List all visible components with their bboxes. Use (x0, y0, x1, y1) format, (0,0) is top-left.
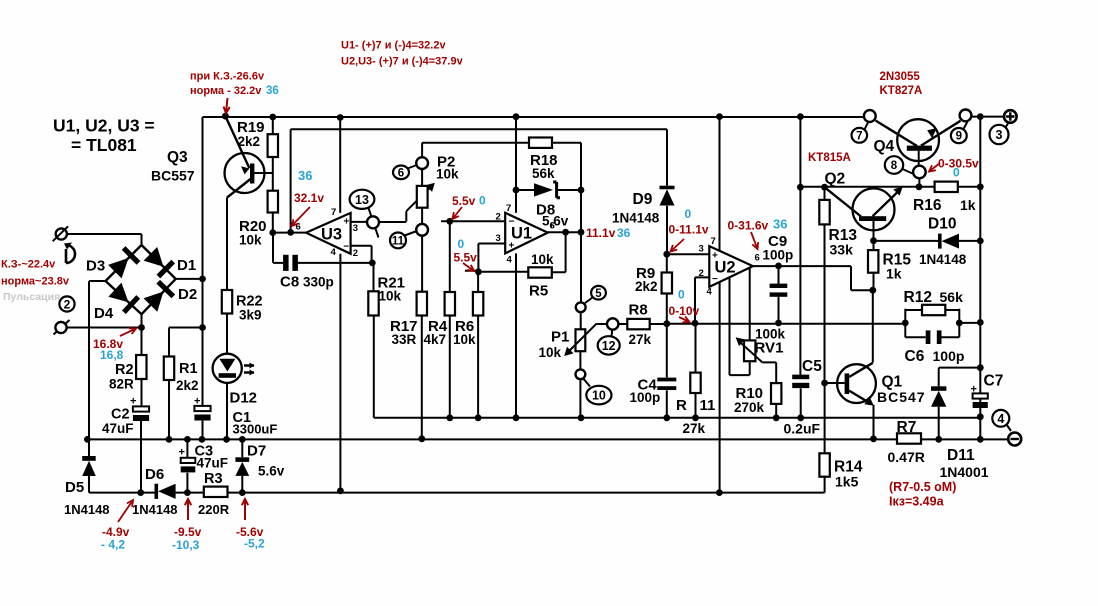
node R10 sense (773, 414, 780, 421)
node C4 sense (663, 414, 670, 421)
svg-text:0-11.1v: 0-11.1v (669, 223, 709, 237)
node U3 pin7 rail (337, 114, 344, 121)
node Q1 emitter bus (870, 435, 877, 442)
resistor R22 (222, 290, 232, 314)
svg-text:KT827A: KT827A (880, 85, 923, 97)
node rail right (977, 113, 984, 120)
svg-text:7: 7 (506, 203, 511, 214)
node right rail R12 (977, 319, 984, 326)
svg-text:BC557: BC557 (151, 168, 195, 184)
svg-text:5.6v: 5.6v (258, 464, 285, 479)
terminal input 2 label (59, 296, 74, 311)
svg-text:C6: C6 (905, 348, 925, 365)
svg-text:2k2: 2k2 (635, 279, 658, 294)
node R20 U3 output (269, 229, 276, 236)
svg-text:R7: R7 (897, 419, 917, 436)
svg-text:Q2: Q2 (825, 171, 846, 188)
resistor R21 10k (373, 263, 375, 418)
node D9 U2 pin3 (663, 251, 670, 258)
svg-text:К.З-~22.4v: К.З-~22.4v (1, 259, 56, 271)
svg-text:7: 7 (856, 130, 862, 142)
resistor R5 10k feedback (478, 232, 565, 272)
resistor R6 10k (477, 272, 479, 292)
diode D3 (108, 258, 128, 278)
svg-text:(R7-0.5 oM): (R7-0.5 oM) (889, 480, 956, 494)
node U1 output D8 R18 (578, 229, 585, 236)
svg-text:D3: D3 (86, 258, 105, 275)
svg-text:3k9: 3k9 (239, 308, 262, 323)
svg-text:3: 3 (996, 128, 1003, 142)
svg-text:1N4148: 1N4148 (132, 502, 178, 517)
potentiometer P2 10k (406, 186, 431, 211)
svg-text:D6: D6 (145, 466, 164, 483)
resistor R1 (164, 357, 174, 381)
op-amp U2 TL081 (709, 246, 753, 287)
svg-text:82R: 82R (109, 377, 134, 392)
svg-text:10k: 10k (379, 289, 402, 304)
wire 0.2uF sense line (374, 417, 981, 419)
resistor R7 0.47R (897, 433, 921, 443)
svg-text:4: 4 (507, 255, 513, 266)
node Q2 base R15 D10 (870, 237, 877, 244)
resistor R3 220R (204, 487, 228, 497)
svg-text:4: 4 (707, 287, 713, 298)
node D12 bus (223, 436, 230, 443)
svg-text:16,8: 16,8 (100, 348, 124, 362)
transistor Q1 BC547 (872, 290, 874, 362)
wire U1 pin7 D8 vertical (515, 117, 517, 213)
svg-text:7: 7 (331, 207, 336, 218)
svg-text:норма - 32.2v: норма - 32.2v (190, 85, 262, 97)
node C3 top bus (184, 436, 191, 443)
node C2 bias junction (137, 489, 144, 496)
svg-text:1k5: 1k5 (835, 474, 859, 490)
wire U2 pin3 to D9 R9 (667, 253, 710, 255)
svg-text:11: 11 (392, 236, 405, 248)
resistor R4 4k7 (449, 221, 451, 292)
wire U2 output to R15 node (753, 266, 873, 290)
svg-text:3300uF: 3300uF (233, 422, 278, 437)
resistor R19 2k2 (272, 117, 274, 191)
svg-text:при К.З.-26.6v: при К.З.-26.6v (190, 71, 265, 83)
node C1 bus (199, 436, 206, 443)
node U3 pin2 C8 R21 (369, 260, 376, 267)
node U3 pin4 bias rail (337, 487, 344, 494)
wire U2 pin7 from rail (719, 117, 721, 251)
svg-text:13: 13 (355, 193, 369, 207)
svg-text:U3: U3 (321, 226, 342, 244)
svg-text:+: + (509, 241, 515, 252)
transistor Q4 KT827A (876, 121, 918, 147)
resistor R16 1k (935, 182, 958, 192)
resistor R8 27k (618, 323, 667, 325)
svg-text:12: 12 (602, 339, 616, 353)
node D8 right (578, 187, 585, 194)
svg-text:U1, U2, U3 =: U1, U2, U3 = (53, 116, 155, 136)
svg-text:33k: 33k (830, 242, 854, 258)
svg-text:5,6v: 5,6v (542, 214, 569, 229)
svg-text:330p: 330p (303, 275, 334, 290)
svg-text:-10,3: -10,3 (172, 538, 200, 552)
capacitor C8 330p (273, 233, 372, 263)
svg-text:R3: R3 (204, 471, 223, 487)
node R13 top (821, 184, 828, 191)
wire terminal 1 to bridge top (67, 234, 142, 245)
wire D11 link (939, 368, 980, 387)
wiper terminal 12 (607, 318, 618, 329)
svg-text:10k: 10k (531, 252, 554, 267)
svg-text:220R: 220R (198, 502, 230, 517)
wire terminal 10 to sense line (579, 379, 581, 418)
svg-text:D12: D12 (230, 390, 258, 407)
terminal 3 plus output (1004, 110, 1017, 123)
svg-text:Q1: Q1 (882, 374, 903, 391)
diode D4 (108, 283, 128, 303)
wire Q4 base line (800, 186, 980, 188)
node R6 sense line (475, 414, 482, 421)
bridge rectifier frame (106, 245, 176, 314)
wire U2 pin4 to bias rail (719, 282, 721, 493)
wire R4 bottom (449, 316, 451, 418)
svg-text:BC547: BC547 (877, 389, 926, 405)
capacitor C5 0.2uF (792, 375, 809, 380)
resistor R10 270k (775, 362, 777, 417)
svg-text:3: 3 (353, 223, 358, 234)
node C3 bottom (184, 489, 191, 496)
terminal 6 label (393, 166, 409, 180)
svg-text:2k2: 2k2 (176, 378, 199, 393)
svg-text:0: 0 (678, 288, 685, 302)
svg-text:10k: 10k (239, 233, 262, 248)
wire top rail right segment to plus terminal (971, 116, 1004, 118)
wire raw DC vertical from bridge plus to rail and C1 (202, 117, 204, 439)
node U3 output rail corner (287, 229, 294, 236)
wire Q3 base to R19 R20 node (254, 172, 272, 174)
svg-text:3: 3 (699, 244, 704, 255)
wire R18 right to output node (552, 143, 581, 233)
wire U1 pin4 to sense line (515, 253, 517, 417)
node U2 pin4 bias rail (716, 489, 723, 496)
resistor R12 56k with C6 (905, 309, 959, 338)
svg-text:11: 11 (700, 397, 716, 414)
svg-text:+: + (712, 251, 718, 262)
svg-text:Q4: Q4 (874, 138, 895, 155)
svg-text:2: 2 (64, 297, 71, 311)
wire U3 output rail (second rail) to D9 (291, 129, 667, 232)
svg-text:-9.5v: -9.5v (174, 525, 202, 539)
node D11 bus (935, 436, 942, 443)
node bridge plus (199, 276, 206, 283)
node U2 pin2 feedback (692, 320, 699, 327)
node R8 R9 junction (663, 320, 670, 327)
svg-text:36: 36 (617, 226, 631, 240)
node U1 pin4 sense (513, 414, 520, 421)
svg-text:10k: 10k (453, 332, 476, 347)
wire terminal 8 to base line (918, 178, 920, 187)
wire bridge plus output (176, 278, 203, 280)
wire R1 bottom (168, 380, 170, 439)
resistor R11 27k (695, 323, 697, 418)
op-amp U1 TL081 (505, 213, 548, 254)
diode D11 1N4001 (931, 386, 946, 391)
svg-text:U1- (+)7 и (-)4=32.2v: U1- (+)7 и (-)4=32.2v (341, 40, 446, 52)
svg-text:47uF: 47uF (102, 421, 134, 436)
wire terminal 2 to bridge bottom (67, 314, 142, 327)
svg-text:2: 2 (353, 248, 358, 259)
wire R22 to D12 (226, 314, 228, 355)
svg-text:6: 6 (398, 167, 404, 179)
capacitor C3 47uF (186, 439, 188, 492)
wire top positive rail (203, 116, 864, 118)
wire output to terminal 5 (580, 232, 582, 303)
node C5 sense (797, 414, 804, 421)
node D8 left (513, 187, 520, 194)
node R4 sense line (446, 414, 453, 421)
svg-text:1k: 1k (960, 197, 976, 213)
svg-text:−: − (509, 217, 515, 228)
diode D6 1N4148 (155, 484, 159, 499)
node Q4 base line (916, 183, 923, 190)
diode D10 1N4148 (874, 240, 981, 242)
node U2 pin7 rail (716, 113, 723, 120)
svg-text:33R: 33R (392, 332, 417, 347)
svg-text:8: 8 (891, 160, 898, 172)
svg-text:P1: P1 (551, 329, 569, 346)
node R12 C6 left (902, 320, 909, 327)
wire C2 bottom to bias node (140, 421, 142, 493)
svg-text:R12: R12 (904, 289, 932, 306)
svg-text:4: 4 (997, 412, 1004, 426)
node R12 C6 right (956, 320, 963, 327)
wire R17 bottom to bus (421, 316, 423, 440)
svg-text:0-31.6v: 0-31.6v (728, 219, 769, 233)
svg-text:R5: R5 (529, 283, 548, 300)
svg-text:+: + (971, 383, 977, 395)
node R17 bus (418, 435, 425, 442)
svg-text:27k: 27k (683, 421, 706, 436)
svg-text:3: 3 (496, 233, 501, 244)
node U2out R15 Q1 (869, 287, 876, 294)
potentiometer P1 10k (580, 312, 582, 329)
wire feedback line R8 to R12 (667, 322, 981, 325)
terminal 13 tap (368, 207, 379, 238)
svg-text:D9: D9 (633, 191, 653, 208)
svg-text:100p: 100p (630, 390, 661, 405)
svg-text:10k: 10k (539, 345, 562, 360)
terminal 8 Q4 base (913, 166, 926, 179)
diode D2 (144, 292, 164, 312)
svg-text:6: 6 (296, 222, 301, 233)
wire negative bus (87, 438, 1008, 440)
node D11 link rail (977, 364, 984, 371)
svg-text:Пульсация: Пульсация (3, 291, 60, 303)
svg-text:2k2: 2k2 (238, 134, 261, 149)
trimmer RV1 100k offset (730, 268, 750, 375)
svg-text:1N4148: 1N4148 (919, 252, 967, 267)
svg-text:56k: 56k (940, 289, 964, 305)
wire P2 top to R18 (422, 142, 529, 144)
resistor R9 2k2 (666, 254, 668, 324)
node rail K3 annotation point (222, 113, 229, 120)
svg-text:Iкз=3.49a: Iкз=3.49a (889, 495, 945, 509)
svg-text:0: 0 (685, 207, 692, 221)
wire R20 bottom to U3 (273, 213, 306, 233)
svg-text:норма~23.8v: норма~23.8v (1, 276, 70, 288)
diode D5 1N4148 (82, 456, 96, 461)
resistor R17 33R (417, 292, 427, 316)
wire R6 bottom (477, 316, 479, 418)
svg-text:4k7: 4k7 (424, 332, 447, 347)
node bridge minus bus (84, 436, 91, 443)
node Q1 base (821, 380, 828, 387)
resistor R15 1k (873, 241, 875, 291)
svg-text:- 4,2: - 4,2 (101, 538, 125, 552)
LED D12 (213, 354, 242, 383)
capacitor C6 100p (905, 336, 959, 338)
terminal 11 label (390, 233, 406, 249)
node U1 pin7 rail (513, 113, 520, 120)
wire P1 bottom to terminal 10 (579, 351, 581, 369)
node Q2 rail (797, 113, 804, 120)
svg-text:C8: C8 (280, 274, 299, 291)
svg-text:1N4001: 1N4001 (940, 464, 989, 480)
svg-text:−: − (343, 242, 349, 253)
node Q2 collector (797, 184, 804, 191)
svg-text:6: 6 (755, 253, 760, 264)
terminal 9 (960, 110, 972, 122)
svg-text:0: 0 (479, 194, 486, 208)
wire U2 pin2 down to feedback line (695, 277, 709, 323)
svg-text:100p: 100p (763, 248, 794, 263)
svg-text:R8: R8 (629, 302, 648, 319)
svg-text:0: 0 (953, 166, 960, 180)
node bridge bottom AC (138, 324, 145, 331)
svg-text:32.1v: 32.1v (294, 191, 324, 205)
wire U3 pin3 input (351, 221, 368, 223)
svg-text:5.5v: 5.5v (452, 194, 476, 208)
wire U3 pin4 down to bias rail (339, 254, 341, 491)
wire -5.6v bias rail (89, 476, 825, 493)
node R19 rail (269, 114, 276, 121)
diode D9 1N4148 (660, 186, 675, 190)
wire U1 pin3 input (465, 244, 505, 272)
op-amp U3 TL081 (339, 118, 341, 213)
svg-text:270k: 270k (734, 400, 765, 415)
node R11 sense (692, 414, 699, 421)
wire right rail vertical (979, 117, 981, 440)
terminal 10 tap (576, 369, 586, 379)
svg-text:D10: D10 (928, 216, 956, 233)
svg-text:D11: D11 (947, 447, 975, 464)
diode D1 (144, 247, 164, 267)
svg-text:47uF: 47uF (197, 456, 229, 471)
wire Q2 collector rail vertical (799, 117, 801, 375)
node R16 right rail vertical (977, 183, 984, 190)
svg-text:100p: 100p (933, 348, 965, 364)
svg-text:0-10v: 0-10v (669, 304, 700, 318)
wire tap to P2 wiper (379, 211, 406, 222)
terminal 7 (864, 110, 876, 122)
wire R1 C1 top link (169, 328, 203, 357)
svg-text:9: 9 (956, 131, 962, 143)
svg-text:U2,U3- (+)7 и (-)4=37.9v: U2,U3- (+)7 и (-)4=37.9v (341, 56, 464, 68)
wire bridge minus down to D5 (89, 281, 106, 456)
node C9 bottom feedback (775, 320, 782, 327)
svg-text:+: + (179, 447, 185, 459)
capacitor C9 100p (778, 266, 780, 323)
node C9 top output (775, 263, 782, 270)
wire P2 bottom to R17 (421, 236, 423, 292)
svg-text:+: + (194, 395, 200, 407)
node D7 bottom (239, 489, 246, 496)
svg-text:R1: R1 (179, 361, 198, 377)
svg-text:D2: D2 (178, 286, 197, 303)
svg-text:−: − (712, 274, 718, 285)
node rail bus (977, 436, 984, 443)
svg-text:0: 0 (458, 237, 465, 251)
resistor R2 (141, 328, 143, 407)
node U1 pin3 R5 R6 (475, 268, 482, 275)
node R1 bus (166, 436, 173, 443)
svg-text:36: 36 (773, 217, 787, 232)
svg-text:D7: D7 (247, 443, 266, 460)
svg-text:1k: 1k (886, 266, 902, 282)
node D7 top bus (239, 436, 246, 443)
svg-text:D5: D5 (65, 479, 84, 496)
transistor Q3 BC557 (225, 116, 249, 168)
wire U3 pin2 to C8 R21 node (351, 246, 372, 263)
svg-text:36: 36 (298, 168, 312, 183)
node P1 sense (578, 414, 585, 421)
node C7 sense line (977, 413, 984, 420)
svg-text:+: + (130, 396, 136, 408)
svg-text:36: 36 (266, 85, 279, 97)
capacitor C2 (133, 406, 149, 411)
svg-text:-5,2: -5,2 (244, 537, 265, 551)
diode D8 zener 5.6v (516, 189, 581, 191)
svg-text:C7: C7 (984, 373, 1004, 390)
svg-text:5: 5 (595, 288, 602, 300)
svg-text:4: 4 (331, 247, 337, 258)
svg-text:+: + (344, 217, 350, 228)
svg-text:11.1v: 11.1v (586, 226, 616, 240)
svg-text:56k: 56k (532, 166, 555, 181)
terminal 5 tap (576, 302, 586, 312)
svg-text:0.47R: 0.47R (888, 449, 925, 465)
node R5 output (562, 229, 569, 236)
wire D12 to bus (226, 383, 228, 440)
terminal input 2 (55, 322, 66, 333)
svg-text:7: 7 (711, 236, 716, 247)
wire U1 output (548, 231, 581, 233)
transistor Q2 KT815A (825, 187, 862, 216)
svg-text:R16: R16 (913, 197, 942, 214)
label I of terminal 1 (64, 243, 72, 250)
svg-text:2N3055: 2N3055 (880, 71, 921, 83)
svg-text:27k: 27k (629, 332, 652, 347)
resistor R13 33k (824, 187, 826, 383)
node U1 pin2 R4 (446, 218, 453, 225)
svg-text:5.5v: 5.5v (454, 251, 478, 265)
capacitor C1 3300uF (194, 406, 210, 411)
wire U1 pin2 to R4 (441, 220, 505, 222)
terminal 4 minus output (1008, 433, 1021, 446)
svg-text:= TL081: = TL081 (71, 135, 137, 155)
svg-text:D1: D1 (177, 257, 196, 274)
terminal input 1 (56, 228, 67, 239)
svg-text:10k: 10k (436, 167, 459, 182)
svg-text:RV1: RV1 (755, 340, 784, 357)
